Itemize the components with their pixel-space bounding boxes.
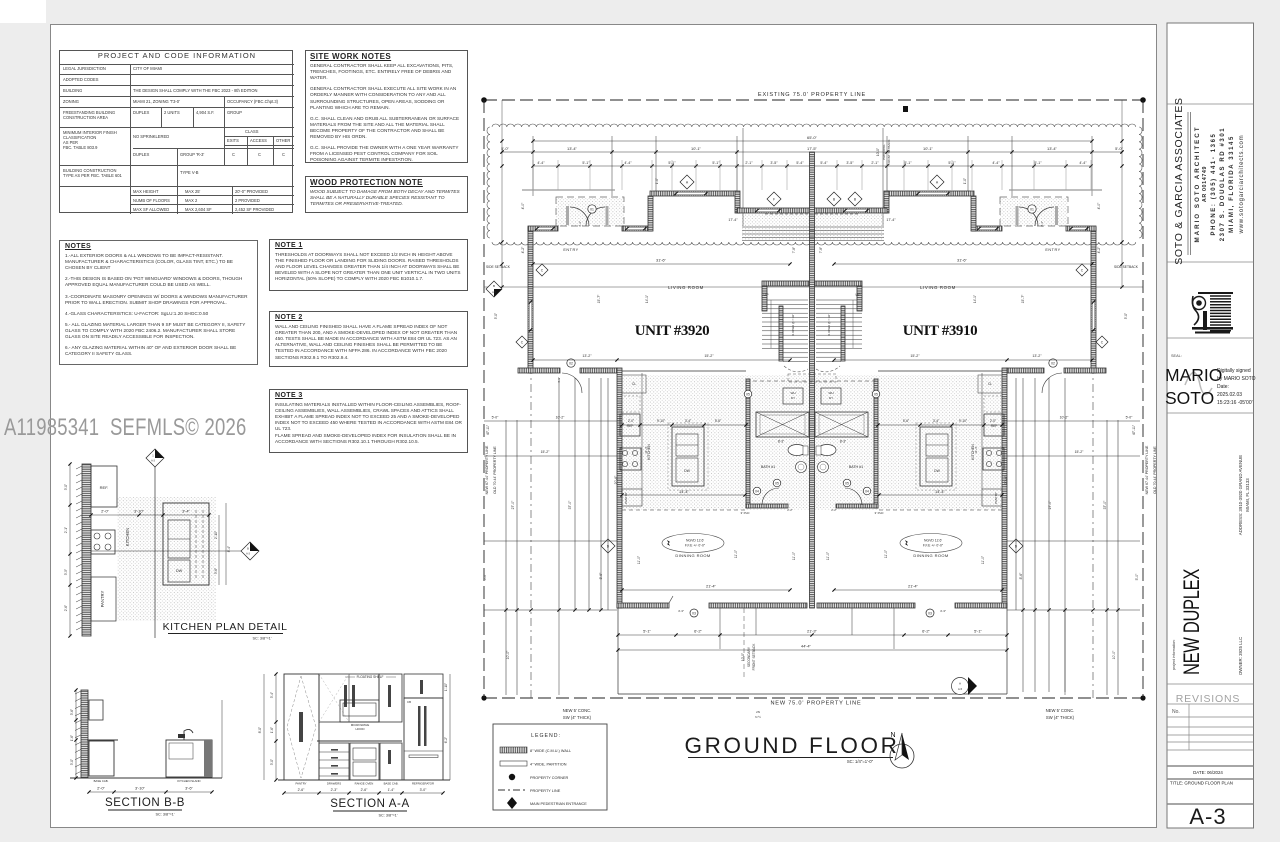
kpd left wall <box>82 464 91 636</box>
saa floor <box>278 779 450 781</box>
svg-text:DY: DY <box>791 396 795 400</box>
project name NEW DUPLEX <box>1180 569 1205 675</box>
svg-text:11'-0": 11'-0" <box>884 549 888 558</box>
svg-text:20'-6": 20'-6" <box>1004 475 1008 484</box>
svg-text:MARIO SOTO ARCHITECT: MARIO SOTO ARCHITECT <box>1194 126 1201 243</box>
svg-text:DY: DY <box>829 396 833 400</box>
svg-text:2'-1": 2'-1" <box>871 161 879 165</box>
saa range oven <box>350 743 379 780</box>
svg-text:N ½: N ½ <box>755 715 761 719</box>
stairwell side wall right <box>841 306 845 361</box>
svg-text:PRINCIPAL: PRINCIPAL <box>882 144 886 160</box>
svg-text:No.: No. <box>1172 709 1180 715</box>
kpd stove <box>91 530 115 554</box>
entry door 01 right: double arc <box>1035 207 1054 226</box>
svg-text:4'-2": 4'-2" <box>521 246 525 254</box>
saa counter <box>317 740 402 742</box>
svg-text:BATH #1: BATH #1 <box>849 465 863 469</box>
floor stipple kitchen/bath strip <box>622 375 1002 510</box>
marker C1 right <box>1076 264 1088 276</box>
marker D right <box>1009 539 1023 553</box>
svg-text:3' PLD: 3' PLD <box>875 511 885 515</box>
svg-text:1'-6": 1'-6" <box>270 727 274 733</box>
svg-text:3'-10": 3'-10" <box>135 785 146 790</box>
svg-text:DW: DW <box>176 569 183 573</box>
living dim 31-6 <box>533 263 790 265</box>
kitchen left: 14-4 dim <box>622 494 745 496</box>
wood protection note <box>305 176 468 213</box>
wall: front bump-out wall <box>650 191 737 196</box>
saa drawers <box>319 743 349 780</box>
svg-text:11'-4": 11'-4" <box>974 446 978 453</box>
svg-text:3'-4": 3'-4" <box>685 419 691 423</box>
svg-text:5'-1": 5'-1" <box>904 161 912 165</box>
svg-text:SEAL:: SEAL: <box>1171 354 1182 358</box>
note 2 <box>269 311 468 367</box>
marker B1 <box>827 192 841 206</box>
yard horizontal lines <box>484 420 622 422</box>
svg-text:2'-6": 2'-6" <box>361 788 369 792</box>
svg-text:2307 S. DOUGLAS RD #301: 2307 S. DOUGLAS RD #301 <box>1220 127 1226 242</box>
kitchen left: living/kitchen line <box>622 370 746 372</box>
svg-text:WH: WH <box>791 391 796 395</box>
sbb dim line <box>89 791 212 793</box>
svg-text:11'-0": 11'-0" <box>826 551 830 560</box>
stair wall left <box>762 286 767 311</box>
svg-text:11'-0": 11'-0" <box>792 551 796 560</box>
svg-text:14'-1": 14'-1" <box>645 295 649 303</box>
svg-text:5'-0": 5'-0" <box>1115 146 1123 151</box>
svg-text:NGVD 12.6': NGVD 12.6' <box>686 539 704 543</box>
svg-text:03: 03 <box>928 611 932 615</box>
sidebar logo <box>1192 292 1233 334</box>
door 03 left <box>690 609 698 617</box>
porch roof line right <box>1009 189 1102 191</box>
svg-text:OWNER: 3925 LLC: OWNER: 3925 LLC <box>1238 637 1243 675</box>
door 03 right <box>926 609 934 617</box>
svg-text:5'-1": 5'-1" <box>582 161 590 165</box>
svg-text:LIVING ROOM: LIVING ROOM <box>668 285 704 290</box>
svg-text:DATE: 06/2024: DATE: 06/2024 <box>1193 770 1223 775</box>
window segments in front walls <box>676 192 706 195</box>
kitchen right: upper dashed cabinets <box>984 396 1004 412</box>
svg-text:RANGE OVEN: RANGE OVEN <box>355 782 374 786</box>
svg-text:4'-1": 4'-1" <box>578 221 582 227</box>
sbb left wall <box>81 690 88 778</box>
svg-text:PANTRY: PANTRY <box>100 590 105 607</box>
svg-text:20'-6": 20'-6" <box>614 475 618 484</box>
svg-text:3'-6": 3'-6" <box>70 709 74 715</box>
svg-text:ADDRESS: 3910-3920 GRAND AVENU: ADDRESS: 3910-3920 GRAND AVENUE <box>1238 455 1243 536</box>
svg-text:F: F <box>773 197 775 201</box>
svg-text:ENTRY: ENTRY <box>1045 248 1060 252</box>
kpd marker right <box>241 542 259 560</box>
svg-text:21'-4": 21'-4" <box>706 583 717 588</box>
note 3 <box>269 389 468 453</box>
svg-text:17'-4": 17'-4" <box>886 218 896 222</box>
svg-text:3'-10": 3'-10" <box>134 508 145 513</box>
svg-text:15'-2": 15'-2" <box>1075 450 1084 454</box>
svg-text:10'-1": 10'-1" <box>923 146 934 151</box>
svg-text:65'-0": 65'-0" <box>807 135 818 140</box>
sbb faucet <box>184 729 193 740</box>
toilet right <box>818 445 836 456</box>
porch dim line 1 <box>618 634 1007 636</box>
marker C1 left <box>536 264 548 276</box>
svg-text:3'-4": 3'-4" <box>182 508 190 513</box>
legend cmu wall <box>500 747 527 753</box>
notes <box>59 240 258 365</box>
kpd marker top <box>146 449 164 467</box>
site work notes <box>305 50 468 163</box>
window in left outer wall <box>529 302 532 330</box>
svg-text:04: 04 <box>865 489 869 493</box>
svg-text:5'-0": 5'-0" <box>501 146 509 151</box>
svg-text:A-5: A-5 <box>958 687 963 691</box>
long horizontal line living <box>484 286 1143 288</box>
saa mid cabinet right <box>379 674 402 722</box>
legend partition <box>500 761 527 766</box>
svg-text:BATH #1: BATH #1 <box>761 465 775 469</box>
svg-text:10'-1": 10'-1" <box>691 146 702 151</box>
svg-text:BASE CAB.: BASE CAB. <box>94 779 109 783</box>
svg-text:N: N <box>890 732 895 739</box>
svg-text:1'-4": 1'-4" <box>388 788 396 792</box>
svg-text:3'-5": 3'-5" <box>846 161 854 165</box>
svg-text:TITLE: GROUND FLOOR PLAN: TITLE: GROUND FLOOR PLAN <box>1170 781 1233 786</box>
closet by door 02 right <box>978 375 1002 393</box>
svg-text:2'-2": 2'-2" <box>831 508 837 512</box>
svg-text:10'-2": 10'-2" <box>1060 416 1069 420</box>
svg-text:PROPERTY CORNER: PROPERTY CORNER <box>530 776 569 780</box>
svg-text:37'-0": 37'-0" <box>568 500 572 509</box>
washer dryer left <box>783 388 803 404</box>
kitchen right: range stove <box>983 448 1004 470</box>
washer dryer right <box>821 388 841 404</box>
svg-text:10'-0": 10'-0" <box>876 148 880 156</box>
party wall <box>810 152 815 608</box>
sbb island <box>166 740 212 777</box>
wall: front step-down wall (mirrored) <box>884 191 889 213</box>
sink right <box>818 462 829 473</box>
svg-text:2N: 2N <box>756 710 760 714</box>
saa refrigerator <box>404 698 443 780</box>
svg-text:REF: REF <box>991 424 997 428</box>
svg-text:UNIT #3920: UNIT #3920 <box>635 323 710 339</box>
svg-text:4'-4": 4'-4" <box>624 161 632 165</box>
svg-text:3'-6": 3'-6" <box>185 785 193 790</box>
short 5ft dim segments <box>502 151 533 153</box>
svg-text:10'-0": 10'-0" <box>741 653 745 661</box>
svg-text:HOOD: HOOD <box>356 727 366 731</box>
svg-text:11 RISER @ 7 1/2": 11 RISER @ 7 1/2" <box>827 314 831 336</box>
svg-text:2'-0": 2'-0" <box>97 785 105 790</box>
svg-text:4'-2": 4'-2" <box>1097 246 1101 254</box>
kpd ref <box>91 466 117 507</box>
svg-text:5'-0": 5'-0" <box>494 313 498 319</box>
svg-text:BASE CAB.: BASE CAB. <box>384 782 399 786</box>
wall: bath wall vertical <box>746 379 750 508</box>
svg-text:10'-2": 10'-2" <box>556 416 565 420</box>
svg-text:REF.: REF. <box>100 485 109 490</box>
revisions table <box>1188 704 1190 750</box>
svg-text:KITCHEN PLAN DETAIL: KITCHEN PLAN DETAIL <box>163 621 288 633</box>
shower left (X box) <box>756 412 809 437</box>
svg-text:MAIN PEDESTRIAN ENTRANCE: MAIN PEDESTRIAN ENTRANCE <box>530 802 587 806</box>
wall: kitchen side wall (mirrored) <box>1002 368 1007 608</box>
svg-text:5'-4": 5'-4" <box>796 161 804 165</box>
sbb right ref line <box>221 700 223 778</box>
wall: living bottom wall seg1 (mirrored) <box>1064 368 1106 373</box>
project and code information table <box>59 50 293 213</box>
stair dashed arc left <box>784 366 808 372</box>
north arrow <box>890 744 914 768</box>
svg-text:7'-8": 7'-8" <box>792 247 796 253</box>
landing dashed rect <box>788 374 836 382</box>
svg-text:13'-4": 13'-4" <box>567 146 578 151</box>
svg-text:9'-10": 9'-10" <box>657 419 665 423</box>
svg-text:04: 04 <box>755 489 759 493</box>
living bottom dim row <box>533 359 790 361</box>
svg-text:44'-4": 44'-4" <box>801 643 812 648</box>
svg-text:15'-2": 15'-2" <box>704 354 714 358</box>
marker D left <box>601 539 615 553</box>
svg-text:SW (4" THICK): SW (4" THICK) <box>1046 715 1075 720</box>
svg-text:21'-4": 21'-4" <box>908 583 919 588</box>
stair wall right <box>857 286 862 311</box>
kitchen right: island dashed counter <box>916 423 956 490</box>
svg-text:LIVING ROOM: LIVING ROOM <box>920 285 956 290</box>
svg-text:2'-1": 2'-1" <box>745 161 753 165</box>
svg-text:3'-0": 3'-0" <box>70 759 74 765</box>
wall: living bottom wall seg1 <box>518 368 560 373</box>
svg-text:2'-6": 2'-6" <box>64 605 68 611</box>
svg-text:2'-0": 2'-0" <box>990 419 996 423</box>
stair rail lines <box>770 300 772 348</box>
wall: front wall right of entry (mirrored) <box>972 226 1002 231</box>
svg-text:8'-6": 8'-6" <box>599 572 603 580</box>
svg-text:SOTO & GARCIA ASSOCIATES: SOTO & GARCIA ASSOCIATES <box>1173 97 1185 265</box>
wall: bottom wall seg1 <box>617 603 669 608</box>
svg-text:A-5: A-5 <box>492 291 496 294</box>
svg-text:4'-4": 4'-4" <box>1079 161 1087 165</box>
small black marker on property line <box>903 106 908 112</box>
svg-text:6'-2": 6'-2" <box>694 628 702 633</box>
svg-text:NGVD 12.6': NGVD 12.6' <box>924 539 942 543</box>
svg-text:15'-2": 15'-2" <box>910 354 920 358</box>
kitchen left: island <box>672 427 704 486</box>
revision cloud <box>492 124 1136 127</box>
svg-text:10'-0": 10'-0" <box>506 650 510 659</box>
svg-text:F.F.E +/- 0'-0": F.F.E +/- 0'-0" <box>923 544 944 548</box>
marker C2 left <box>516 336 528 348</box>
kitchen left: kitchen/dining dashed divider <box>622 509 746 511</box>
svg-text:WH: WH <box>829 391 834 395</box>
wall: stair landing wall <box>762 281 809 286</box>
property line top: EXISTING 75.0 <box>484 99 1143 101</box>
svg-text:31'-6": 31'-6" <box>656 257 667 262</box>
svg-text:13'-2": 13'-2" <box>582 354 592 358</box>
svg-text:5'-1": 5'-1" <box>712 161 720 165</box>
svg-text:5'-1": 5'-1" <box>1034 161 1042 165</box>
svg-text:FRONT SETBACK: FRONT SETBACK <box>887 139 891 164</box>
sbb floor line <box>70 777 222 779</box>
top dimension row small segments <box>533 165 1091 167</box>
wall: front step-down wall <box>735 191 740 213</box>
wall: left outer wall living <box>528 227 533 373</box>
extension lines top dims <box>532 136 534 196</box>
kpd left dim col <box>69 464 71 636</box>
svg-text:05: 05 <box>775 481 779 485</box>
marker A left <box>680 175 694 189</box>
svg-text:PANTRY: PANTRY <box>295 782 306 786</box>
svg-text:15'-7": 15'-7" <box>597 294 601 303</box>
svg-text:5'-1": 5'-1" <box>668 161 676 165</box>
svg-text:14'-1": 14'-1" <box>973 295 977 303</box>
property line right <box>1142 100 1144 698</box>
svg-text:3'-4": 3'-4" <box>270 692 274 698</box>
svg-text:Digitally signed: Digitally signed <box>1217 368 1251 374</box>
svg-text:5'-1": 5'-1" <box>948 161 956 165</box>
sbb left dims <box>75 690 77 778</box>
svg-text:8'-0": 8'-0" <box>258 727 262 733</box>
svg-text:SC: 3/8"=1': SC: 3/8"=1' <box>378 814 397 818</box>
wall: kitchen side wall <box>617 368 622 608</box>
svg-text:A: A <box>959 682 961 686</box>
svg-text:NEW 67.44' PROPERTY LINE: NEW 67.44' PROPERTY LINE <box>1145 445 1149 494</box>
svg-text:project information:: project information: <box>1172 639 1176 670</box>
svg-text:SECONDARY: SECONDARY <box>747 646 751 667</box>
svg-text:11'-0": 11'-0" <box>981 555 985 564</box>
svg-text:FLOATING SHELF: FLOATING SHELF <box>357 675 384 679</box>
svg-text:CL: CL <box>988 382 992 386</box>
svg-text:A-3: A-3 <box>1189 804 1226 829</box>
svg-text:4'-3": 4'-3" <box>678 609 684 613</box>
svg-text:2'-0": 2'-0" <box>101 508 109 513</box>
svg-text:3'-4": 3'-4" <box>933 419 939 423</box>
svg-text:UNIT #3910: UNIT #3910 <box>903 323 978 339</box>
wall: living bottom wall seg2 (mirrored) <box>1007 368 1044 373</box>
wall: bath wall vertical (mirrored) <box>874 379 878 508</box>
svg-text:05: 05 <box>845 481 849 485</box>
svg-text:01: 01 <box>590 207 594 211</box>
svg-text:DRAWERS: DRAWERS <box>327 782 341 786</box>
svg-text:8'-4": 8'-4" <box>227 546 231 552</box>
kitchen right: island <box>920 427 952 486</box>
svg-text:www.sotogarciarchitects.com: www.sotogarciarchitects.com <box>1239 135 1245 235</box>
svg-text:5'-0": 5'-0" <box>1126 416 1134 420</box>
porch roof line left <box>522 189 615 191</box>
kitchen right: upper dim line <box>878 424 1002 426</box>
svg-text:5'-0": 5'-0" <box>1124 313 1128 319</box>
kitchen left: counter line <box>641 373 643 489</box>
kitchen right: kitchen/dining dashed divider <box>878 509 1002 511</box>
svg-text:OLD 70.44' PROPERTY LINE: OLD 70.44' PROPERTY LINE <box>1153 446 1157 494</box>
svg-text:4'-3": 4'-3" <box>940 609 946 613</box>
svg-text:14'-4": 14'-4" <box>679 489 690 494</box>
top dimension row 65ft <box>533 140 1092 142</box>
left dim column lines <box>501 100 503 287</box>
wall: front wall right of entry <box>622 226 652 231</box>
svg-text:DW: DW <box>934 469 940 473</box>
legend property corner <box>509 774 515 780</box>
svg-text:F.F.E +/- 0'-0": F.F.E +/- 0'-0" <box>685 544 706 548</box>
svg-text:3'-5": 3'-5" <box>64 569 68 575</box>
kitchen left: upper dim line <box>622 424 746 426</box>
wall: front wall left of entry (mirrored) <box>1066 226 1096 231</box>
marker A right <box>930 175 944 189</box>
extra yard lines <box>607 378 609 610</box>
kitchen left: refrigerator <box>620 414 640 436</box>
svg-text:SC: 1/4"=1'-0": SC: 1/4"=1'-0" <box>847 759 874 764</box>
section marker B/A-5 left edge <box>486 281 502 297</box>
svg-text:47'-11": 47'-11" <box>486 424 490 435</box>
svg-text:2'-10": 2'-10" <box>214 531 218 539</box>
dining room flood elevation cloud label <box>662 534 724 553</box>
svg-text:02: 02 <box>1051 361 1055 365</box>
svg-text:2'-2": 2'-2" <box>787 508 793 512</box>
bath area dashed top line <box>746 380 878 382</box>
svg-text:FRONT SETBACK: FRONT SETBACK <box>752 643 756 671</box>
wall: front wall left of entry <box>528 226 558 231</box>
wall: living bottom wall seg2 <box>580 368 617 373</box>
svg-text:4" WIDE, PARTITION: 4" WIDE, PARTITION <box>530 763 567 767</box>
svg-text:3'-0": 3'-0" <box>420 788 428 792</box>
svg-text:15:23:16 -05'00': 15:23:16 -05'00' <box>1217 400 1253 406</box>
svg-text:SECTION B-B: SECTION B-B <box>105 797 185 809</box>
white page corner top-left <box>0 0 46 23</box>
svg-text:2'-3": 2'-3" <box>331 788 339 792</box>
svg-text:8" WIDE (C.M.U.) WALL: 8" WIDE (C.M.U.) WALL <box>530 749 571 753</box>
kitchen right: living/kitchen line <box>878 370 1002 372</box>
svg-text:3' PLD: 3' PLD <box>741 511 751 515</box>
legend property line <box>498 789 527 791</box>
svg-text:SW (4" THICK): SW (4" THICK) <box>563 715 592 720</box>
svg-text:UP: UP <box>856 293 862 297</box>
svg-text:5'-1": 5'-1" <box>643 628 651 633</box>
porch slab <box>617 608 619 694</box>
legend pedestrian entrance <box>507 797 517 809</box>
svg-text:11 RISER @ 7 1/2": 11 RISER @ 7 1/2" <box>791 314 795 336</box>
D marker line <box>484 540 617 542</box>
window in right outer wall <box>1092 302 1095 330</box>
kitchen left: PANTRY <box>622 489 642 506</box>
kitchen right: refrigerator <box>984 414 1004 436</box>
svg-text:17'-4": 17'-4" <box>728 218 738 222</box>
svg-text:9'-10": 9'-10" <box>959 419 967 423</box>
svg-text:PANTRY: PANTRY <box>994 492 998 504</box>
svg-text:1'-0": 1'-0" <box>963 178 967 184</box>
svg-text:MIAMI, FLORIDA 33145: MIAMI, FLORIDA 33145 <box>1229 135 1235 233</box>
saa dim line <box>284 792 443 794</box>
kitchen right: counter line <box>981 373 983 489</box>
svg-text:3'-5": 3'-5" <box>770 161 778 165</box>
side setback line right <box>1092 240 1094 698</box>
svg-text:4'-1": 4'-1" <box>1040 221 1044 227</box>
svg-text:5'-6": 5'-6" <box>715 419 721 423</box>
saa upper cabinets <box>319 674 379 722</box>
svg-text:CB: CB <box>407 700 411 704</box>
kitchen right: 14-4 dim <box>879 494 1002 496</box>
kitchen right: PANTRY <box>982 489 1002 506</box>
sbb upper cabinet <box>89 700 103 720</box>
svg-text:3'-6": 3'-6" <box>214 568 218 574</box>
svg-text:SC: 3/8"=1': SC: 3/8"=1' <box>155 813 174 817</box>
svg-text:4'-4": 4'-4" <box>992 161 1000 165</box>
svg-text:6'-2": 6'-2" <box>922 628 930 633</box>
wall: bottom wall seg2 <box>709 603 807 608</box>
svg-text:MARIO: MARIO <box>1165 365 1222 385</box>
